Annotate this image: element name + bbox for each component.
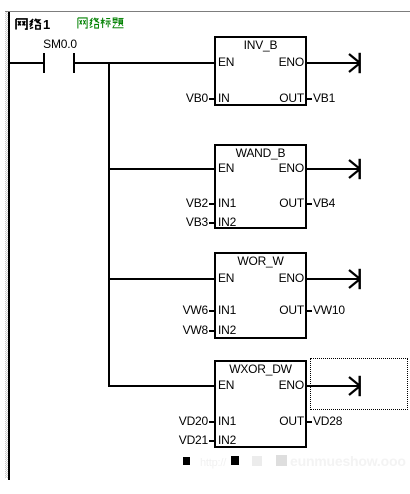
U3 pin IN2	[218, 323, 236, 337]
U4 pin IN1	[218, 414, 236, 428]
U1 pin OUT	[240, 91, 304, 105]
U3 pin IN1	[218, 303, 236, 317]
watermark gray square 3	[252, 456, 262, 466]
left margin checker strip	[5, 12, 8, 478]
U3 pin EN	[218, 271, 234, 285]
U1 title INV_B	[216, 38, 305, 52]
wire branch to WAND_B EN	[108, 168, 214, 170]
network label 网络 1	[0, 0, 60, 32]
U2 title WAND_B	[216, 146, 305, 160]
U1 IN tick	[209, 98, 214, 100]
U1 OUT tick	[307, 98, 312, 100]
U2 output arrow	[347, 158, 363, 180]
watermark gray square 4	[276, 455, 287, 466]
top separator line	[5, 11, 410, 12]
U1 operand VB1	[313, 91, 335, 105]
branch rail vertical	[108, 62, 110, 387]
U4 ENO wire	[307, 385, 360, 387]
watermark square 1	[183, 457, 190, 465]
U3 pin OUT	[240, 303, 304, 317]
op block U4 WXOR_DW	[214, 360, 307, 448]
selection dotted rect	[310, 358, 408, 410]
network title 网络标题 (green)	[0, 0, 130, 32]
U2 pin ENO	[240, 161, 304, 175]
U4 operand VD28	[313, 414, 342, 428]
U2 pin EN	[218, 161, 234, 175]
op block U3 WOR_W	[214, 252, 307, 339]
U3 operand VW8	[148, 323, 208, 337]
U3 IN1 tick	[209, 310, 214, 312]
U1 output arrow	[347, 52, 363, 74]
U2 pin IN1	[218, 196, 236, 210]
U4 operand VD20	[148, 414, 208, 428]
U2 operand VB4	[313, 196, 335, 210]
U2 operand VB2	[148, 196, 208, 210]
U4 pin IN2	[218, 433, 236, 447]
U4 pin OUT	[240, 414, 304, 428]
U3 OUT tick	[307, 310, 312, 312]
label SM0.0	[20, 37, 100, 51]
U2 pin OUT	[240, 196, 304, 210]
U4 pin EN	[218, 378, 234, 392]
U2 OUT tick	[307, 203, 312, 205]
U1 pin EN	[218, 55, 234, 69]
U2 IN1 tick	[209, 203, 214, 205]
U2 IN2 tick	[209, 222, 214, 224]
watermark faint http text	[200, 456, 226, 470]
U1 pin ENO	[240, 55, 304, 69]
U4 title WXOR_DW	[216, 362, 305, 376]
U3 pin ENO	[240, 271, 304, 285]
contact SM0.0 right bar	[73, 53, 75, 73]
watermark faint site text	[290, 454, 406, 468]
U1 ENO wire	[307, 62, 360, 64]
wire branch to WXOR_DW EN	[108, 385, 214, 387]
watermark square 2	[231, 456, 239, 465]
U4 OUT tick	[307, 421, 312, 423]
wire branch to WOR_W EN	[108, 278, 214, 280]
U3 output arrow	[347, 268, 363, 290]
U3 IN2 tick	[209, 330, 214, 332]
U2 pin IN2	[218, 215, 236, 229]
U1 operand VB0	[148, 91, 208, 105]
U4 pin ENO	[240, 378, 304, 392]
op block U1 INV_B	[214, 36, 307, 106]
wire contact to branch node	[75, 62, 214, 64]
U3 title WOR_W	[216, 254, 305, 268]
op block U2 WAND_B	[214, 144, 307, 229]
U3 ENO wire	[307, 278, 360, 280]
U4 output arrow	[347, 375, 363, 397]
U4 IN2 tick	[209, 440, 214, 442]
power rail	[8, 12, 10, 480]
U2 ENO wire	[307, 168, 360, 170]
U3 operand VW10	[313, 303, 345, 317]
U4 operand VD21	[148, 433, 208, 447]
contact SM0.0 left bar	[43, 53, 45, 73]
U4 IN1 tick	[209, 421, 214, 423]
U2 operand VB3	[148, 215, 208, 229]
U1 pin IN	[218, 91, 230, 105]
wire rail to contact	[10, 62, 43, 64]
U3 operand VW6	[148, 303, 208, 317]
